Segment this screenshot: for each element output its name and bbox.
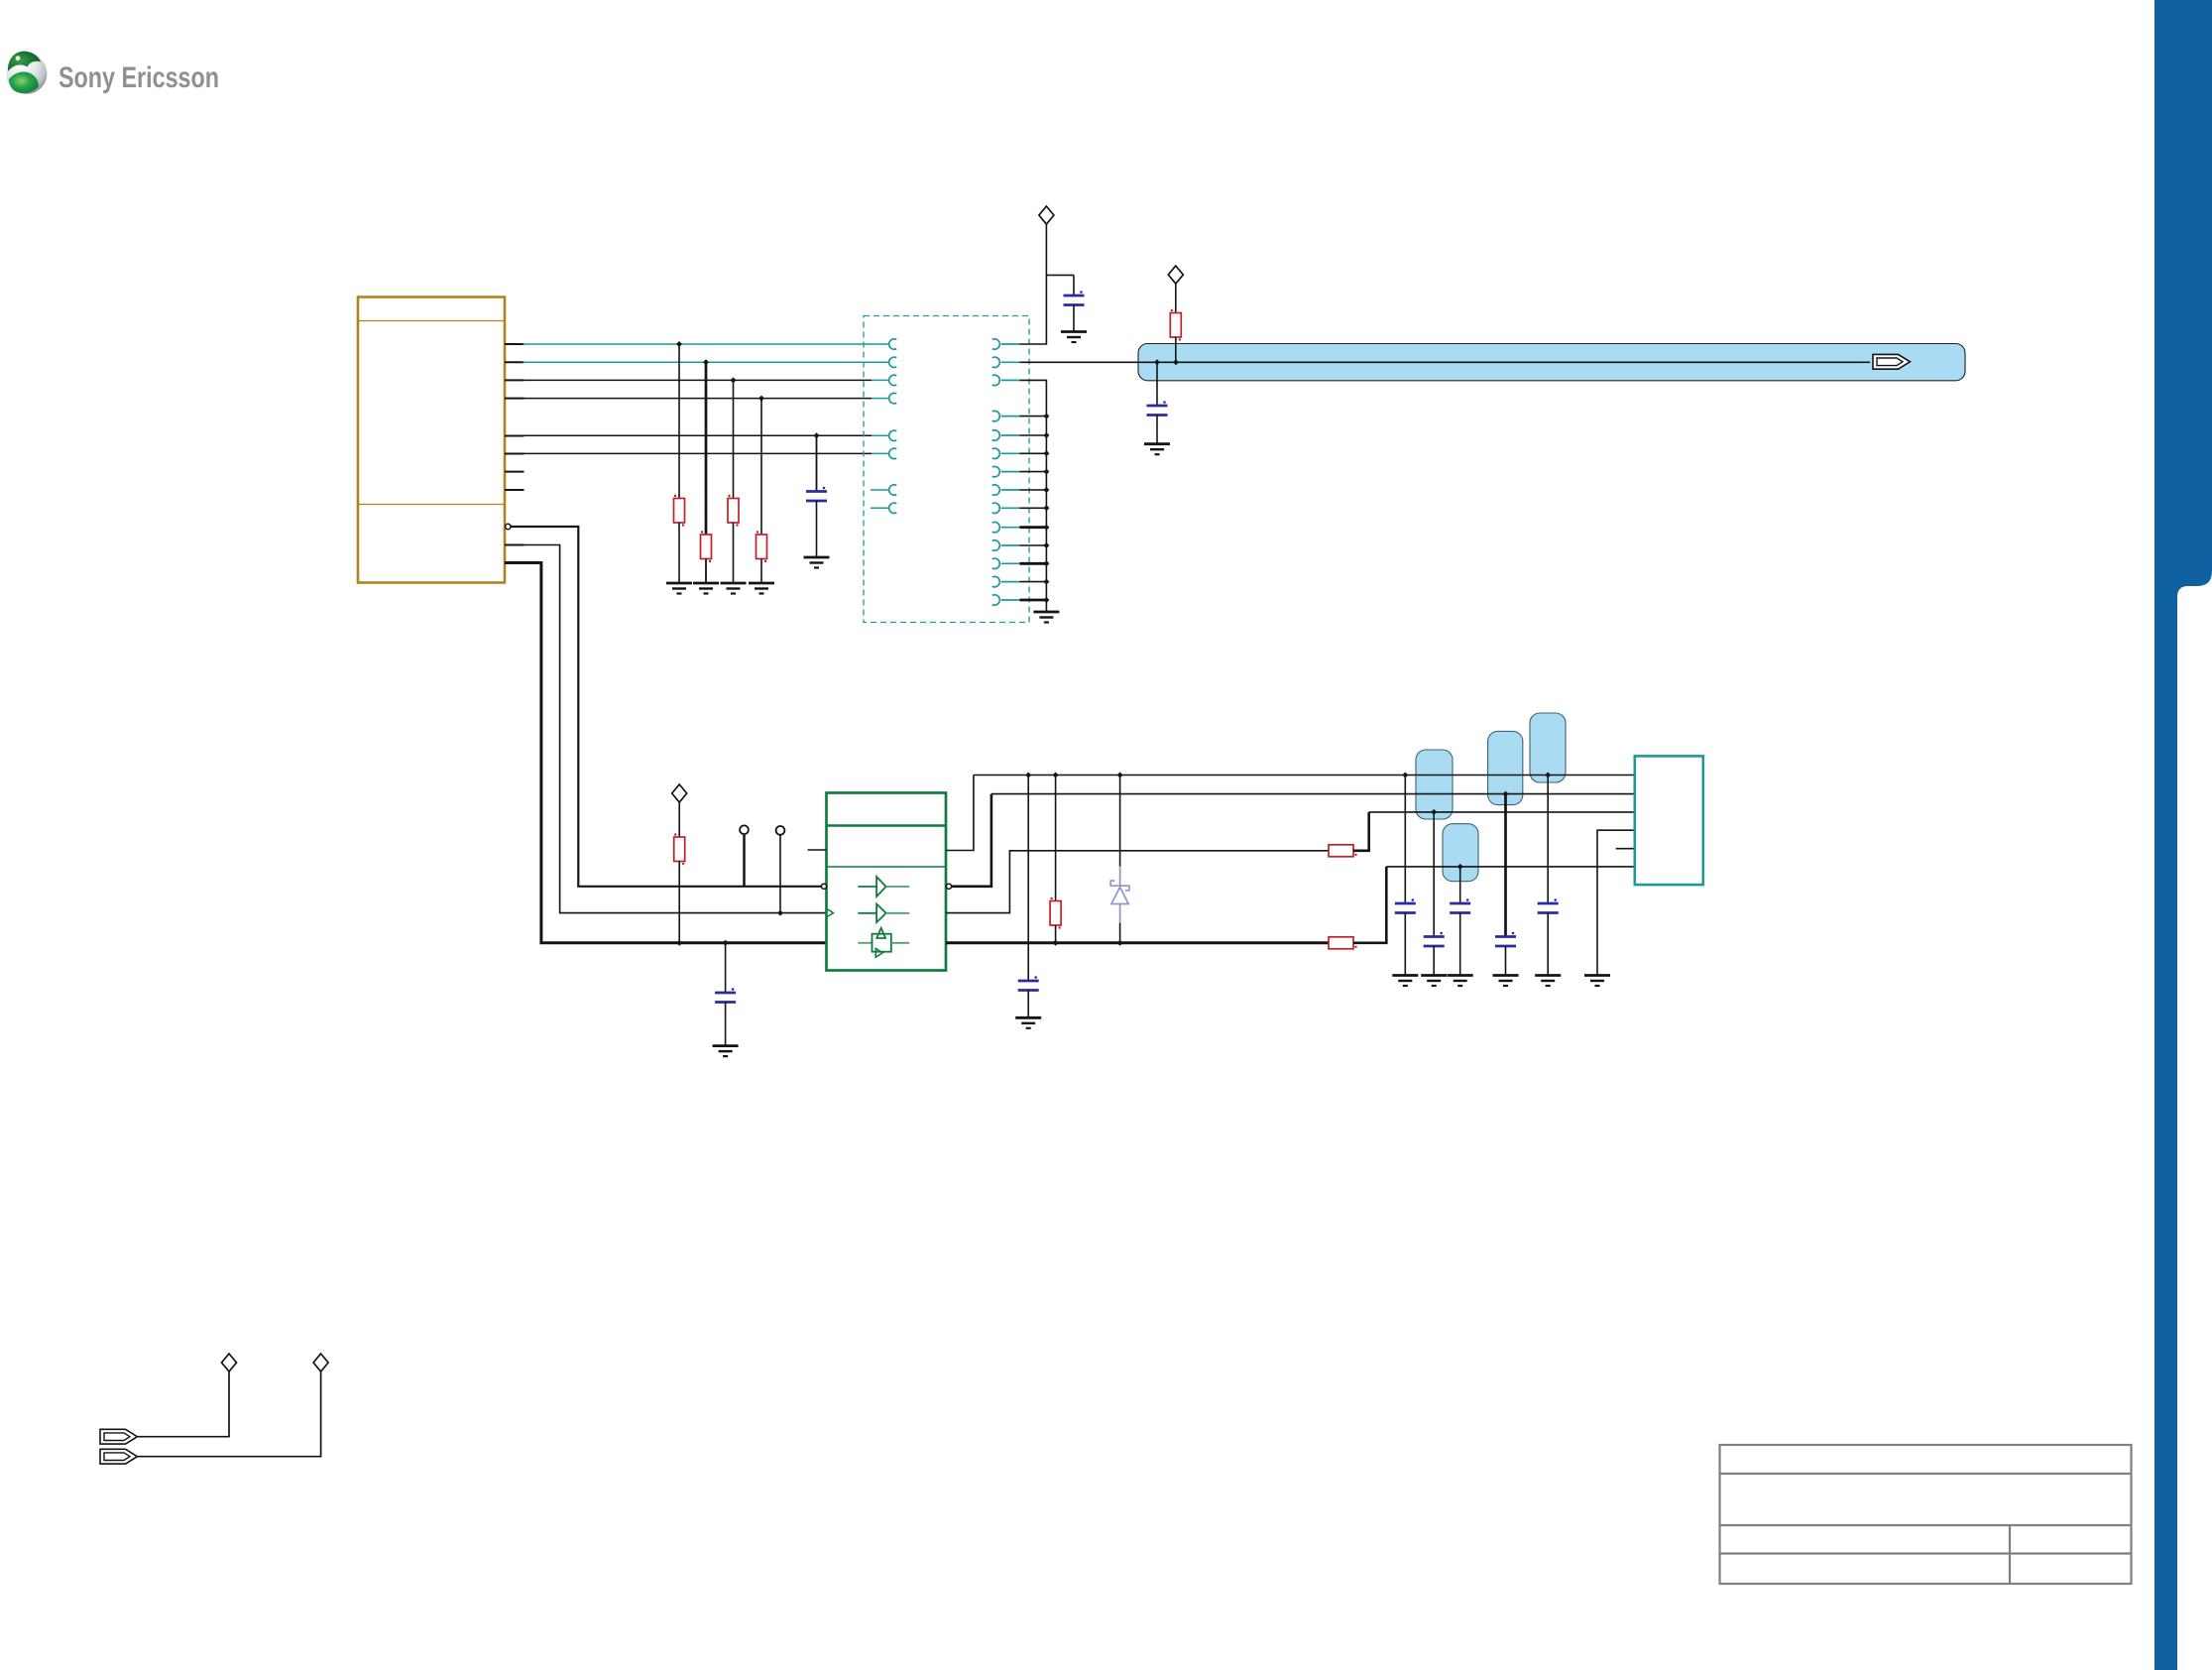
U2 left inverted pin — [821, 884, 826, 889]
node junction rail zener — [1117, 940, 1123, 946]
U1 left pin 6 — [889, 448, 897, 458]
node junction gnd bus — [1043, 469, 1049, 475]
node junction bus R7 — [1173, 359, 1179, 365]
node junction R2 tap — [703, 359, 709, 365]
resistor R2 — [701, 362, 712, 583]
U2 buffer symbol 1 — [858, 877, 909, 896]
zener diode D1 — [1110, 775, 1129, 943]
ground C6 — [1392, 976, 1418, 987]
wire ground rail right — [946, 941, 1329, 944]
IC U2 body — [827, 793, 947, 971]
ground U1 — [1033, 612, 1059, 623]
node junction net A c6 — [1402, 773, 1408, 778]
U1 left pin 2 — [889, 357, 897, 367]
U2 right inverted pin — [946, 884, 951, 889]
wire U1 gnd pin thick — [1020, 562, 1047, 565]
capacitor C5 — [1018, 976, 1039, 1017]
U1 left pin 3 — [889, 375, 897, 385]
ground R2 — [693, 583, 719, 594]
ground C3 — [804, 557, 830, 568]
wire lead D5 (teal) — [872, 434, 889, 436]
node junction R4 tap — [758, 396, 764, 402]
net highlight bus bar — [1138, 344, 1965, 381]
U1 right pin 7 — [992, 466, 1020, 476]
capacitor C5 riser — [1027, 775, 1029, 982]
U1 right pin 11 — [992, 540, 1020, 550]
capacitor C2 — [1147, 362, 1168, 443]
ground C8 — [1448, 976, 1473, 987]
wire net D5 — [524, 434, 873, 436]
wire net D3 — [524, 379, 873, 381]
wire net A top rail — [974, 775, 1635, 776]
X1 pin stub 10 — [505, 562, 524, 564]
title block table — [1720, 1445, 2132, 1584]
node junction net B c9 — [1503, 791, 1509, 797]
U1 left pin 8 — [871, 503, 896, 513]
connector X1 body — [358, 298, 505, 583]
U2 bidirectional symbol — [858, 928, 909, 957]
wire U1 gnd pin thick — [1020, 599, 1047, 602]
U1 right pin 13 — [992, 576, 1020, 586]
node junction R3 tap — [731, 377, 737, 383]
wire U3 ground pin — [1597, 830, 1635, 975]
wire lead D4 (teal) — [872, 398, 889, 400]
net flag F1 — [100, 1429, 137, 1444]
net highlight box 4 — [1443, 824, 1478, 882]
off-page connector VREF — [672, 784, 687, 802]
U1 right pin 8 — [992, 485, 1020, 495]
U1 right pin 4 — [992, 411, 1020, 420]
ground C4 — [713, 1046, 739, 1057]
node junction rail r6 — [1053, 940, 1059, 946]
X1 pin stub 5 — [505, 435, 524, 437]
X1 pin stub 3 — [505, 379, 524, 381]
wire X1 pin11 ground rail left — [505, 563, 827, 943]
wire net D — [1386, 866, 1635, 868]
node junction R5 rail — [676, 940, 682, 946]
wire U1 gnd pin — [1020, 452, 1047, 454]
node junction gnd bus — [1043, 579, 1049, 585]
node junction net A c10 — [1545, 773, 1551, 778]
wire U1 gnd pin thick — [1020, 526, 1047, 529]
net highlight box 1 — [1416, 750, 1453, 819]
node junction gnd bus — [1043, 560, 1049, 566]
node junction gnd bus — [1043, 450, 1049, 456]
node junction gnd bus — [1043, 432, 1049, 438]
wire C1 branch — [1046, 274, 1074, 276]
node junction net A zener — [1117, 773, 1123, 778]
node junction net A r6 — [1053, 773, 1059, 778]
wire U1 pin1 to VCC diamond — [1020, 224, 1047, 344]
U1 right pin 9 — [992, 503, 1020, 513]
ground C1 — [1061, 332, 1087, 343]
capacitor C6 — [1395, 775, 1416, 976]
off-page connector P1 — [222, 1354, 237, 1372]
capacitor C8 — [1450, 867, 1470, 976]
net flag F2 — [100, 1449, 137, 1464]
wire F1 to diamond — [137, 1372, 229, 1437]
wire X1 pin10 to U2 triangle input — [505, 545, 827, 913]
test point TP2 — [776, 826, 785, 913]
U3 no-connect stub — [1616, 848, 1635, 850]
ground U3 — [1584, 976, 1610, 987]
U1 left pin 7 — [871, 485, 896, 495]
ground C5 — [1015, 1017, 1041, 1028]
wire U1 gnd pin — [1020, 434, 1047, 436]
node junction R1 tap — [676, 341, 682, 347]
wire U2 out2 riser — [946, 851, 1329, 913]
node junction gnd bus — [1043, 525, 1049, 531]
X1 inverted pin circle — [506, 524, 511, 529]
U1 right pin 6 — [992, 448, 1020, 458]
resistor R3 — [728, 380, 739, 583]
node junction net A c5 — [1025, 773, 1031, 778]
U1 left pin 4 — [889, 393, 897, 403]
wire U1 gnd pin — [1020, 416, 1047, 417]
wire net B — [991, 793, 1635, 795]
wire F2 to diamond — [137, 1372, 320, 1457]
test point TP1 — [740, 825, 749, 886]
resistor R7 — [1170, 284, 1181, 362]
node junction gnd bus — [1043, 597, 1049, 603]
resistor R4 — [757, 399, 767, 583]
X1 pin stub 1 — [505, 343, 524, 345]
wire X1 circle pin to U2 buffer input — [511, 527, 821, 887]
capacitor C9 — [1495, 794, 1516, 976]
node junction bus left — [1154, 359, 1160, 365]
resistor R6 — [1050, 775, 1061, 943]
net highlight box 3 — [1530, 713, 1566, 782]
X1 pin stub 2 — [505, 361, 524, 363]
page sidebar band — [2154, 0, 2212, 1670]
wire lead D3 (teal) — [872, 379, 889, 381]
wire U2 mid pin to net A riser — [946, 775, 974, 851]
wire R8 to net C riser — [1353, 812, 1369, 851]
node junction C3 tap — [814, 432, 820, 438]
U1 right pin 2 — [992, 357, 1020, 367]
IC U3 body — [1635, 756, 1703, 885]
resistor R8 — [1329, 845, 1357, 857]
U1 left pin 1 — [889, 339, 897, 349]
wire U2 out1 to net B riser — [952, 794, 991, 887]
resistor R9 — [1329, 937, 1357, 949]
wire net D4 — [524, 398, 873, 400]
X1 pin stub 9 — [505, 544, 524, 546]
U2 left no-connect stub — [808, 849, 827, 851]
capacitor C10 — [1538, 775, 1559, 976]
net highlight box 2 — [1488, 731, 1523, 804]
U1 right pin 14 — [992, 595, 1020, 605]
node junction gnd bus — [1043, 505, 1049, 511]
connector U1 dashed outline — [864, 316, 1029, 623]
wire U1 pin3 to ground bus — [1020, 380, 1047, 612]
node junction net D c8 — [1457, 864, 1463, 870]
node junction rail C4 tap — [723, 940, 729, 946]
U1 right pin 1 — [992, 339, 1020, 349]
wire net SCL (teal) — [524, 343, 889, 345]
U1 right pin 5 — [992, 430, 1020, 440]
capacitor C3 — [806, 435, 827, 557]
U1 right pin 10 — [992, 523, 1020, 533]
capacitor C1 — [1064, 275, 1085, 331]
resistor R5 — [674, 802, 685, 943]
capacitor C4 — [715, 943, 736, 1046]
U1 left pin 5 — [889, 430, 897, 440]
wire U1 gnd pin — [1020, 507, 1047, 509]
X1 pin stub 6 — [505, 453, 524, 455]
wire net C — [1369, 811, 1635, 813]
wire net D6 — [524, 452, 873, 454]
X1 pin stub 4 — [505, 398, 524, 400]
wire U1 gnd pin — [1020, 471, 1047, 473]
off-page connector P2 — [313, 1354, 328, 1372]
X1 pin stub 8 — [505, 489, 524, 491]
ground C9 — [1493, 976, 1519, 987]
node junction net C c7 — [1431, 809, 1437, 815]
wire U1 gnd pin — [1020, 544, 1047, 546]
svg-text:Sony Ericsson: Sony Ericsson — [58, 61, 219, 94]
wire net SDA (teal) — [524, 361, 889, 363]
capacitor C7 — [1424, 812, 1445, 976]
off-page connector VCC1 — [1039, 206, 1054, 224]
Sony Ericsson logo ball — [6, 52, 47, 94]
X1 pin stub 7 — [505, 471, 524, 473]
resistor R1 — [674, 344, 685, 583]
wire rail to net D riser — [1353, 867, 1386, 943]
ground R1 — [666, 583, 692, 594]
net flag on bus — [1873, 354, 1910, 369]
wire U1 gnd pin — [1020, 581, 1047, 583]
node junction gnd bus — [1043, 487, 1049, 493]
ground C2 — [1144, 444, 1170, 455]
node junction gnd bus — [1043, 414, 1049, 419]
U2 buffer symbol 2 — [858, 904, 909, 923]
node junction TP2 — [777, 910, 783, 916]
off-page connector VBUS — [1168, 266, 1183, 284]
ground R3 — [721, 583, 747, 594]
ground C7 — [1421, 976, 1447, 987]
U1 right pin 12 — [992, 558, 1020, 568]
ground C10 — [1535, 976, 1561, 987]
wire U1 gnd pin — [1020, 489, 1047, 491]
wire lead D6 (teal) — [872, 452, 889, 454]
node junction gnd bus — [1043, 542, 1049, 548]
U1 right pin 3 — [992, 375, 1020, 385]
wire U1 pin2 data to bus label — [1020, 361, 1871, 363]
U2 left clock pin triangle — [828, 909, 834, 917]
ground R4 — [749, 583, 774, 594]
